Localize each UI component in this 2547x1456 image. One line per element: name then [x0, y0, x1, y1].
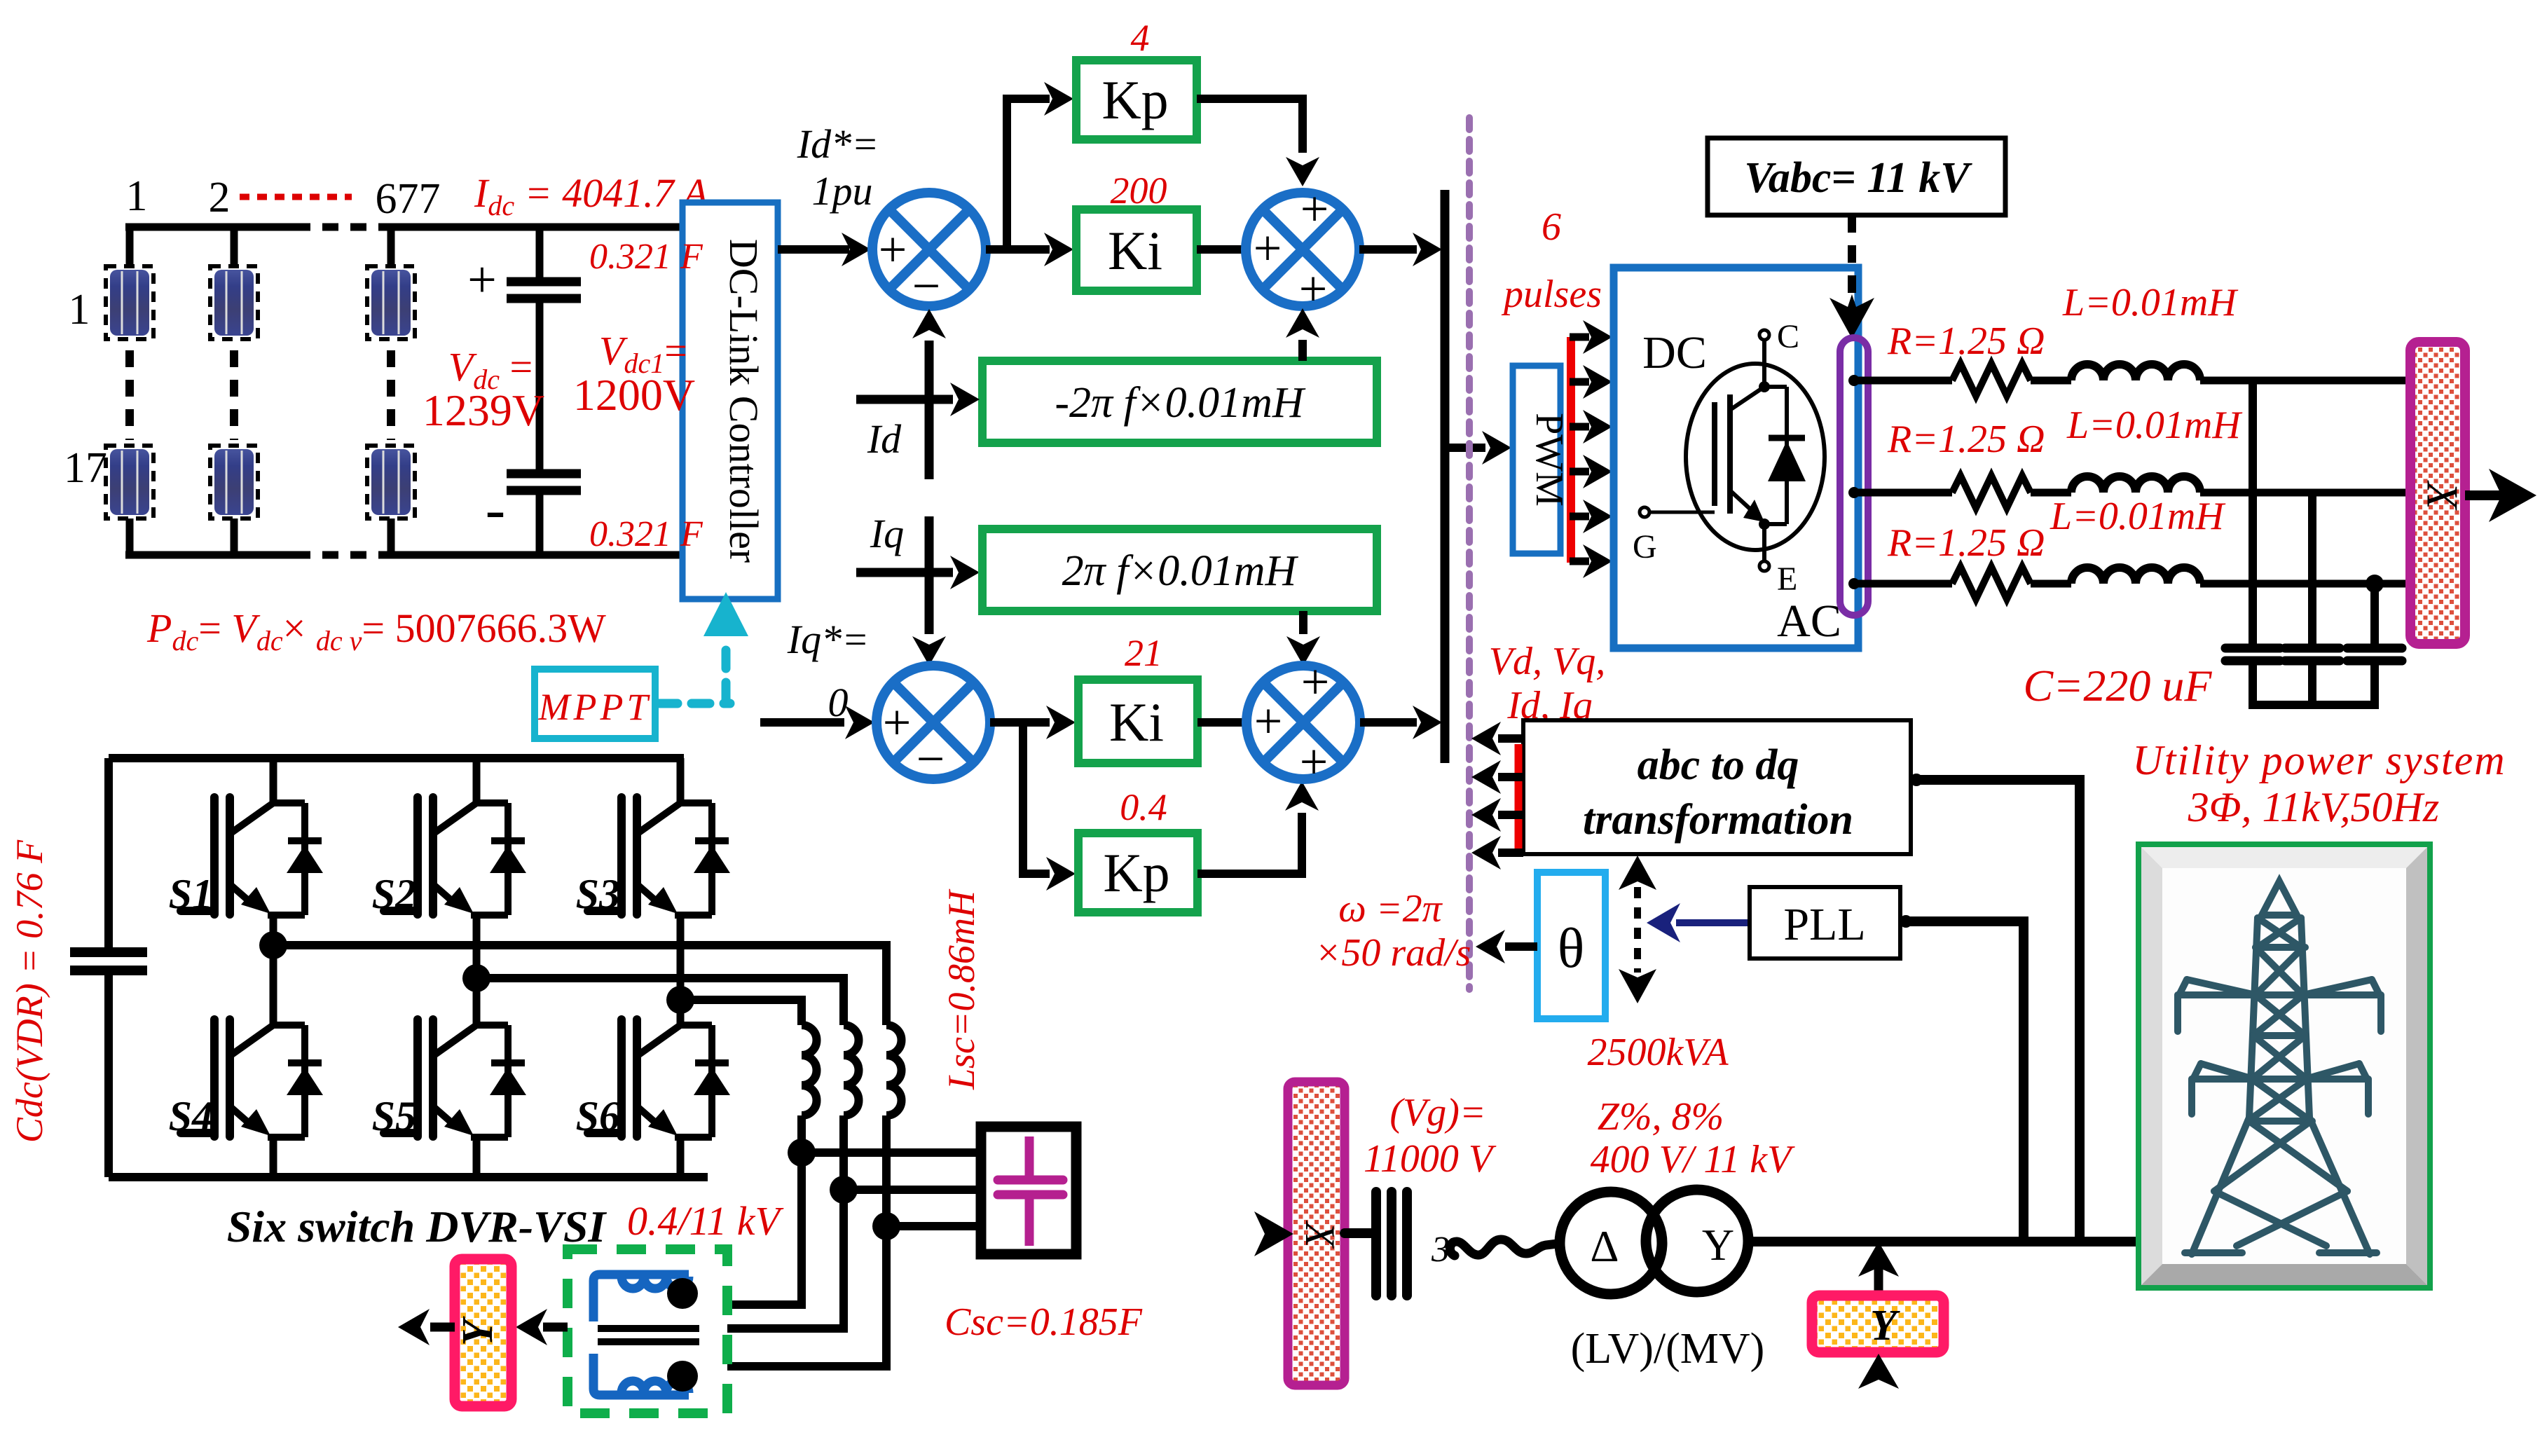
transformer core — [598, 1325, 699, 1332]
wire: dq arrow 3 — [1498, 811, 1523, 819]
resistor R phase B — [1952, 476, 2031, 508]
transistor S4 — [181, 1019, 323, 1137]
node: abc-dq output dot — [1910, 774, 1923, 786]
wire — [2031, 377, 2071, 385]
wire: bus branch to PWM — [1445, 444, 1485, 452]
node: junction dot phase C tap — [2366, 575, 2384, 593]
inductor Lsc coil1 — [802, 1025, 817, 1115]
theta block — [1537, 872, 1605, 1019]
wire: column 677 drop — [387, 227, 395, 268]
wire: Vabc dashed drop — [1848, 215, 1856, 300]
svg-text:+: + — [879, 221, 907, 277]
resistor R phase A — [1952, 364, 2031, 396]
wire: cyan dashed MPPT link vertical — [722, 636, 731, 701]
wire: S3-S6 midpoint link — [677, 915, 685, 1025]
wire: branch to Kp — [1003, 95, 1050, 103]
wire: PV bottom bus solid left — [125, 551, 294, 559]
wire: Ki21 output to summer2q — [1197, 718, 1244, 727]
wire: Y load riser arrow — [1874, 1267, 1883, 1298]
wire: phase C to coil1 — [680, 1000, 802, 1025]
arrowhead Vabc into AC node — [1829, 294, 1874, 338]
capacitor Cdc(VDR) — [70, 758, 147, 1177]
wire: Kp04 output up to summer2q — [1197, 813, 1302, 874]
transistor S5 — [384, 1019, 526, 1137]
arrowhead below Y load — [1858, 1354, 1899, 1389]
arrowhead into summer1 — [842, 233, 871, 266]
wire: PCC to grid bars — [1345, 1228, 1373, 1238]
svg-text:MPPT: MPPT — [538, 686, 652, 728]
summing junction summer1 (d-axis error) — [872, 193, 986, 314]
svg-text:Ki: Ki — [1108, 220, 1162, 281]
wire: Id feedback vertical — [925, 341, 934, 479]
wire: col677 bottom drop — [387, 518, 395, 555]
node: secondary polarity dot — [667, 1361, 698, 1392]
wire: phase B line — [1854, 489, 1952, 497]
svg-text:Cdc(VDR) = 0.76 F: Cdc(VDR) = 0.76 F — [8, 839, 50, 1143]
svg-text:4: 4 — [1131, 17, 1150, 59]
wire: pulse arrow 2 — [1570, 378, 1589, 386]
wire: theta dashed double arrow — [1634, 887, 1641, 973]
svg-text:S3: S3 — [576, 871, 620, 917]
wire: PLL to theta navy arrow — [1676, 919, 1750, 926]
MPPT box — [535, 669, 655, 739]
inductor L phase C — [2071, 568, 2200, 584]
svg-text:Vd, Vq,: Vd, Vq, — [1489, 640, 1605, 683]
wire: DC-link output to summer1 — [778, 245, 849, 254]
wire: column 1 drop — [126, 227, 134, 268]
wire: PV bottom bus dashed middle — [294, 551, 384, 559]
wire: cap stems and bottom tie — [2249, 661, 2379, 705]
wire: S6 emitter drop — [677, 1137, 685, 1177]
gain block Ki (d-axis) — [1076, 210, 1197, 291]
wire: abc-dq output feeder — [1911, 780, 2080, 1237]
wire: PV bottom bus solid right — [384, 551, 690, 559]
capacitor C filter B — [2285, 648, 2340, 661]
wire: Ki output to summer2 — [1197, 245, 1243, 254]
inductor Lsc coil3 — [886, 1025, 902, 1115]
svg-text:Csc=0.185F: Csc=0.185F — [945, 1300, 1143, 1344]
transmission tower drawing — [2178, 881, 2381, 1254]
svg-text:+: + — [1300, 734, 1329, 790]
svg-text:X: X — [2417, 479, 2467, 511]
svg-text:Z%, 8%: Z%, 8% — [1598, 1095, 1724, 1139]
wire — [2031, 489, 2071, 497]
Vabc box — [1708, 138, 2005, 215]
svg-text:R=1.25 Ω: R=1.25 Ω — [1887, 521, 2045, 565]
wire: phase B to coil2 — [476, 978, 844, 1025]
svg-text:Pdc= Vdc× dc v= 5007666.3W: Pdc= Vdc× dc v= 5007666.3W — [146, 605, 606, 657]
summing junction summer1q (q-axis error) — [877, 666, 990, 787]
svg-text:-2π f×0.01mH: -2π f×0.01mH — [1055, 379, 1306, 427]
transformer primary winding — [593, 1275, 689, 1321]
wire: PV top bus solid right to DC-link — [384, 224, 685, 231]
svg-text:×50 rad/s: ×50 rad/s — [1315, 931, 1471, 975]
svg-text:Iq: Iq — [870, 511, 904, 556]
transistor S6 — [588, 1019, 730, 1137]
node: junction dot sc1 — [788, 1139, 816, 1167]
svg-text:1pu: 1pu — [812, 168, 873, 214]
PV module row1 col2 — [210, 266, 258, 339]
wire: branch to Kp04 — [1019, 870, 1050, 878]
lower crossarm — [2192, 1076, 2368, 1083]
svg-text:AC: AC — [1777, 596, 1841, 647]
node: phase dot A — [1848, 375, 1860, 386]
wire: capacitor mid link — [536, 298, 544, 471]
wire: dq arrow 2 — [1498, 773, 1523, 781]
svg-text:677: 677 — [376, 175, 441, 223]
wire: phase A line — [1854, 377, 1952, 385]
capacitor Cdc2 bottom plates — [507, 469, 581, 479]
IGBT module symbol U1 — [1633, 318, 1825, 598]
wire — [2200, 489, 2412, 497]
node: output bus bar (dotted) — [2410, 342, 2465, 644]
DC-Link Controller box — [682, 202, 778, 599]
wire: pulse arrow 4 — [1570, 468, 1589, 476]
wire: 2pi output down to summer2q — [1299, 611, 1307, 634]
svg-text:1: 1 — [126, 172, 148, 220]
wire: pulse arrow 5 — [1570, 513, 1589, 521]
wire: summer2q output to bus — [1360, 718, 1417, 727]
svg-text:1200V: 1200V — [573, 370, 695, 420]
capacitor Cdc1 top plates — [507, 277, 581, 287]
arrowhead into PCC bar — [1254, 1211, 1293, 1256]
wire: cyan dashed MPPT link horizontal — [659, 699, 730, 708]
svg-text:Y: Y — [1702, 1220, 1734, 1270]
svg-text:3Φ, 11kV,50Hz: 3Φ, 11kV,50Hz — [2188, 784, 2439, 830]
svg-text:2π f×0.01mH: 2π f×0.01mH — [1062, 547, 1299, 595]
svg-text:+: + — [1299, 261, 1328, 317]
svg-text:S2: S2 — [372, 871, 416, 917]
wire: MV bus to utility — [1748, 1237, 2141, 1246]
svg-text:(Vg)=: (Vg)= — [1389, 1091, 1485, 1134]
wire: PV top bus solid left — [125, 224, 294, 231]
svg-text:0.4: 0.4 — [1120, 786, 1167, 828]
PWM box — [1513, 366, 1571, 554]
wire: squiggle lead — [1450, 1239, 1558, 1256]
svg-text:6: 6 — [1542, 205, 1561, 249]
svg-text:θ: θ — [1558, 918, 1584, 980]
node: phase junction dot S2 — [462, 964, 490, 992]
svg-text:17: 17 — [64, 444, 107, 492]
wire: S3 collector drop — [677, 758, 685, 806]
transistor S2 — [384, 797, 526, 915]
svg-text:DC: DC — [1642, 327, 1707, 378]
wire: S4 emitter drop — [270, 1137, 277, 1177]
PV module row1 col1 — [106, 266, 153, 339]
svg-text:Y: Y — [454, 1316, 502, 1346]
abc to dq transformation box — [1523, 720, 1911, 854]
wire: purple dashed measurement boundary — [1466, 118, 1473, 989]
wire: capacitor branch bottom — [536, 490, 544, 555]
wire: dq arrow 4 — [1498, 849, 1523, 857]
wire: summer1q output with branch — [990, 718, 1023, 727]
svg-text:+: + — [883, 694, 912, 750]
wire: S1 collector drop — [270, 758, 277, 806]
wire: S1-S4 midpoint link — [270, 915, 277, 1025]
transformer T1 wye winding circle — [1646, 1190, 1748, 1292]
legs — [2192, 1118, 2249, 1254]
wire: Iq feedback vertical — [925, 516, 934, 634]
wire: dq arrow 1 — [1498, 734, 1523, 743]
wire: coil2 tail — [839, 1115, 848, 1190]
node: control output bus — [1441, 190, 1450, 763]
injection transformer box (green dashed) — [568, 1249, 727, 1413]
transistor S3 — [588, 797, 730, 915]
wire: branch to Ki — [1007, 245, 1050, 254]
svg-text:(LV)/(MV): (LV)/(MV) — [1571, 1325, 1765, 1373]
wire: pulse arrow 3 — [1570, 423, 1589, 431]
node: junction dot sc2 — [830, 1176, 858, 1204]
gain block Kp (d-axis) — [1076, 60, 1197, 139]
svg-text:R=1.25 Ω: R=1.25 Ω — [1887, 418, 2045, 461]
node: primary polarity dot — [667, 1278, 698, 1309]
svg-text:2500kVA: 2500kVA — [1587, 1031, 1729, 1074]
svg-text:L=0.01mH: L=0.01mH — [2050, 495, 2225, 538]
wire: summer2 output to bus — [1359, 245, 1417, 254]
wire: transformer to Y load arrow — [543, 1323, 568, 1332]
capacitor Csc box — [981, 1127, 1076, 1254]
load block Y (DVR side) — [454, 1259, 512, 1406]
utility tower picture frame — [2138, 844, 2430, 1288]
wire: VSI top bus — [109, 754, 684, 762]
svg-text:0.321 F: 0.321 F — [589, 237, 703, 277]
svg-text:−: − — [916, 731, 945, 787]
PV module row17 col1 — [106, 446, 153, 518]
upper crossarm — [2178, 991, 2381, 998]
node: phase dot C — [1848, 578, 1860, 589]
wire: sc1 to Csc — [802, 1148, 982, 1157]
wire: grid output arrow — [2465, 490, 2501, 500]
transformer secondary winding — [593, 1354, 689, 1395]
capacitor C filter C — [2347, 648, 2402, 661]
svg-text:C=220 uF: C=220 uF — [2024, 661, 2213, 710]
inductor L phase B — [2071, 476, 2200, 493]
svg-text:400 V/ 11 kV: 400 V/ 11 kV — [1591, 1138, 1795, 1181]
gain block Kp (q-axis) — [1078, 833, 1197, 912]
svg-text:C: C — [1777, 318, 1799, 355]
svg-text:S1: S1 — [169, 871, 213, 917]
wire: col1 bottom drop — [126, 518, 134, 555]
svg-text:transformation: transformation — [1583, 796, 1853, 844]
inverter block box — [1614, 268, 1858, 648]
svg-text:PLL: PLL — [1783, 899, 1865, 950]
node: phase dot B — [1848, 487, 1860, 498]
node: purple AC terminal oval — [1840, 338, 1868, 615]
svg-text:G: G — [1633, 528, 1657, 565]
wire — [2031, 580, 2071, 588]
svg-text:1239V: 1239V — [423, 385, 544, 435]
wire: Iq into 2pi block — [856, 568, 953, 577]
svg-text:X: X — [1297, 1221, 1343, 1249]
svg-text:pulses: pulses — [1501, 273, 1602, 316]
svg-text:Vabc= 11 kV: Vabc= 11 kV — [1744, 154, 1972, 202]
decoupling block -2pi f x 0.01mH — [982, 361, 1377, 443]
wire: Kp output to summer2 — [1197, 99, 1303, 153]
svg-text:+: + — [1254, 693, 1283, 749]
svg-text:11000 V: 11000 V — [1364, 1137, 1497, 1181]
svg-text:0.4/11 kV: 0.4/11 kV — [627, 1198, 785, 1244]
wire: phase C line — [1854, 580, 1952, 588]
svg-text:S4: S4 — [169, 1093, 213, 1139]
wire: column 2 drop — [231, 227, 238, 268]
wire: cap bank drop C — [2370, 584, 2379, 645]
wire — [2200, 580, 2412, 588]
node: red gate-pulse bar — [1567, 337, 1575, 563]
wire: col2 bottom drop — [231, 518, 238, 555]
svg-text:1: 1 — [69, 286, 90, 334]
svg-text:abc to dq: abc to dq — [1638, 741, 1799, 789]
svg-text:Id: Id — [867, 416, 902, 462]
svg-text:L=0.01mH: L=0.01mH — [2066, 404, 2242, 447]
svg-text:21: 21 — [1125, 632, 1162, 674]
svg-text:-: - — [486, 475, 506, 542]
node: junction dot sc3 — [872, 1212, 900, 1240]
wire: coil1 tail — [797, 1115, 806, 1153]
capacitor branch wire top — [536, 227, 544, 278]
resistor R phase C — [1952, 567, 2031, 599]
summing junction summer2 (d-axis sum) — [1246, 181, 1359, 317]
wire: sc2 down to injection transformer — [725, 1190, 844, 1328]
decoupling block 2pi f x 0.01mH — [982, 529, 1377, 611]
wire: branch to Ki21 — [1023, 718, 1050, 727]
capacitor C filter A — [2225, 648, 2280, 661]
svg-text:+: + — [1300, 181, 1329, 237]
svg-text:Kp: Kp — [1101, 69, 1168, 130]
wire: Id into -2pi block — [856, 395, 953, 404]
PV module row17 col2 — [210, 446, 258, 518]
svg-text:S5: S5 — [372, 1093, 416, 1139]
svg-text:Iq*=: Iq*= — [787, 617, 869, 662]
svg-text:L=0.01mH: L=0.01mH — [2062, 281, 2238, 324]
wire: pulse arrow 6 — [1570, 558, 1589, 565]
node: three-phase grid bars — [1376, 1192, 1407, 1296]
wire: sc3 to Csc — [886, 1222, 982, 1230]
arrowhead cyan into DC-link bottom — [703, 592, 748, 636]
gain block Ki (q-axis) — [1078, 680, 1197, 763]
svg-text:S6: S6 — [576, 1093, 620, 1139]
wire: cap bank drop B — [2308, 493, 2316, 645]
wire: coil3 tail — [882, 1115, 891, 1226]
PV module row17 col677 — [367, 446, 415, 518]
wire: phase A to coil3 — [273, 945, 886, 1025]
wire: sc3 down to injection transformer — [725, 1226, 886, 1366]
wire: S2-S5 midpoint link — [473, 915, 481, 1025]
wire: sc1 down to injection transformer — [725, 1153, 802, 1305]
load block Y (grid side) — [1812, 1296, 1944, 1352]
wire: series dashed col677 — [387, 350, 395, 440]
node: PLL output dot — [1900, 915, 1912, 928]
wire: PLL output feeder — [1900, 921, 2024, 1237]
wire: pulse arrow 1 — [1570, 334, 1589, 341]
node: phase junction dot S1 — [259, 931, 287, 959]
wire — [2200, 377, 2412, 385]
svg-text:+: + — [467, 252, 497, 309]
node: PCC bus bar (dotted) — [1288, 1082, 1345, 1385]
svg-text:Lsc=0.86mH: Lsc=0.86mH — [940, 888, 982, 1090]
svg-text:Utility power system: Utility power system — [2132, 737, 2506, 783]
wire: cap bank drop A — [2249, 380, 2257, 645]
transistor S1 — [181, 797, 323, 915]
wire: S2 collector drop — [473, 758, 481, 806]
node: phase junction dot S3 — [666, 986, 694, 1014]
wire: VSI bottom bus — [109, 1173, 708, 1181]
svg-text:Y: Y — [1870, 1302, 1900, 1349]
svg-text:Δ: Δ — [1590, 1221, 1619, 1271]
wire: summer1 output with branch — [986, 245, 1007, 254]
svg-text:Six switch DVR-VSI: Six switch DVR-VSI — [227, 1202, 607, 1251]
wire: Iq* input arrow — [760, 718, 844, 727]
svg-text:PWM: PWM — [1527, 413, 1571, 507]
wire: theta output arrow — [1505, 942, 1537, 951]
svg-text:Id*=: Id*= — [797, 121, 879, 167]
svg-text:DC-Link Controller: DC-Link Controller — [721, 239, 767, 563]
svg-text:+: + — [1301, 654, 1330, 710]
svg-text:2: 2 — [209, 174, 231, 221]
inductor L phase A — [2071, 364, 2200, 380]
PV module row1 col677 — [367, 266, 415, 339]
wire: -2pi output up to summer2 — [1298, 340, 1307, 361]
inductor Lsc coil2 — [844, 1025, 859, 1115]
svg-text:R=1.25 Ω: R=1.25 Ω — [1887, 320, 2045, 363]
svg-text:Ki: Ki — [1109, 692, 1164, 753]
wire: red dashed column continuation — [240, 194, 352, 200]
svg-text:ω =2π: ω =2π — [1338, 887, 1443, 930]
wire: series dashed col1 — [125, 350, 134, 440]
svg-text:+: + — [1254, 220, 1282, 276]
svg-text:−: − — [912, 258, 941, 314]
summing junction summer2q (q-axis sum) — [1247, 654, 1360, 790]
transformer T1 delta winding circle — [1560, 1192, 1662, 1294]
wire: S5 emitter drop — [473, 1137, 481, 1177]
wire: sc2 to Csc — [844, 1186, 982, 1194]
wire: PV top bus dashed middle — [294, 224, 384, 231]
node: red measurement bar — [1515, 744, 1523, 851]
svg-text:0.321 F: 0.321 F — [589, 514, 703, 554]
wire: Y load output arrow — [430, 1323, 455, 1332]
PLL box — [1750, 887, 1900, 959]
wire: series dashed col2 — [230, 350, 238, 440]
svg-text:Kp: Kp — [1103, 842, 1169, 903]
svg-text:E: E — [1777, 561, 1797, 598]
